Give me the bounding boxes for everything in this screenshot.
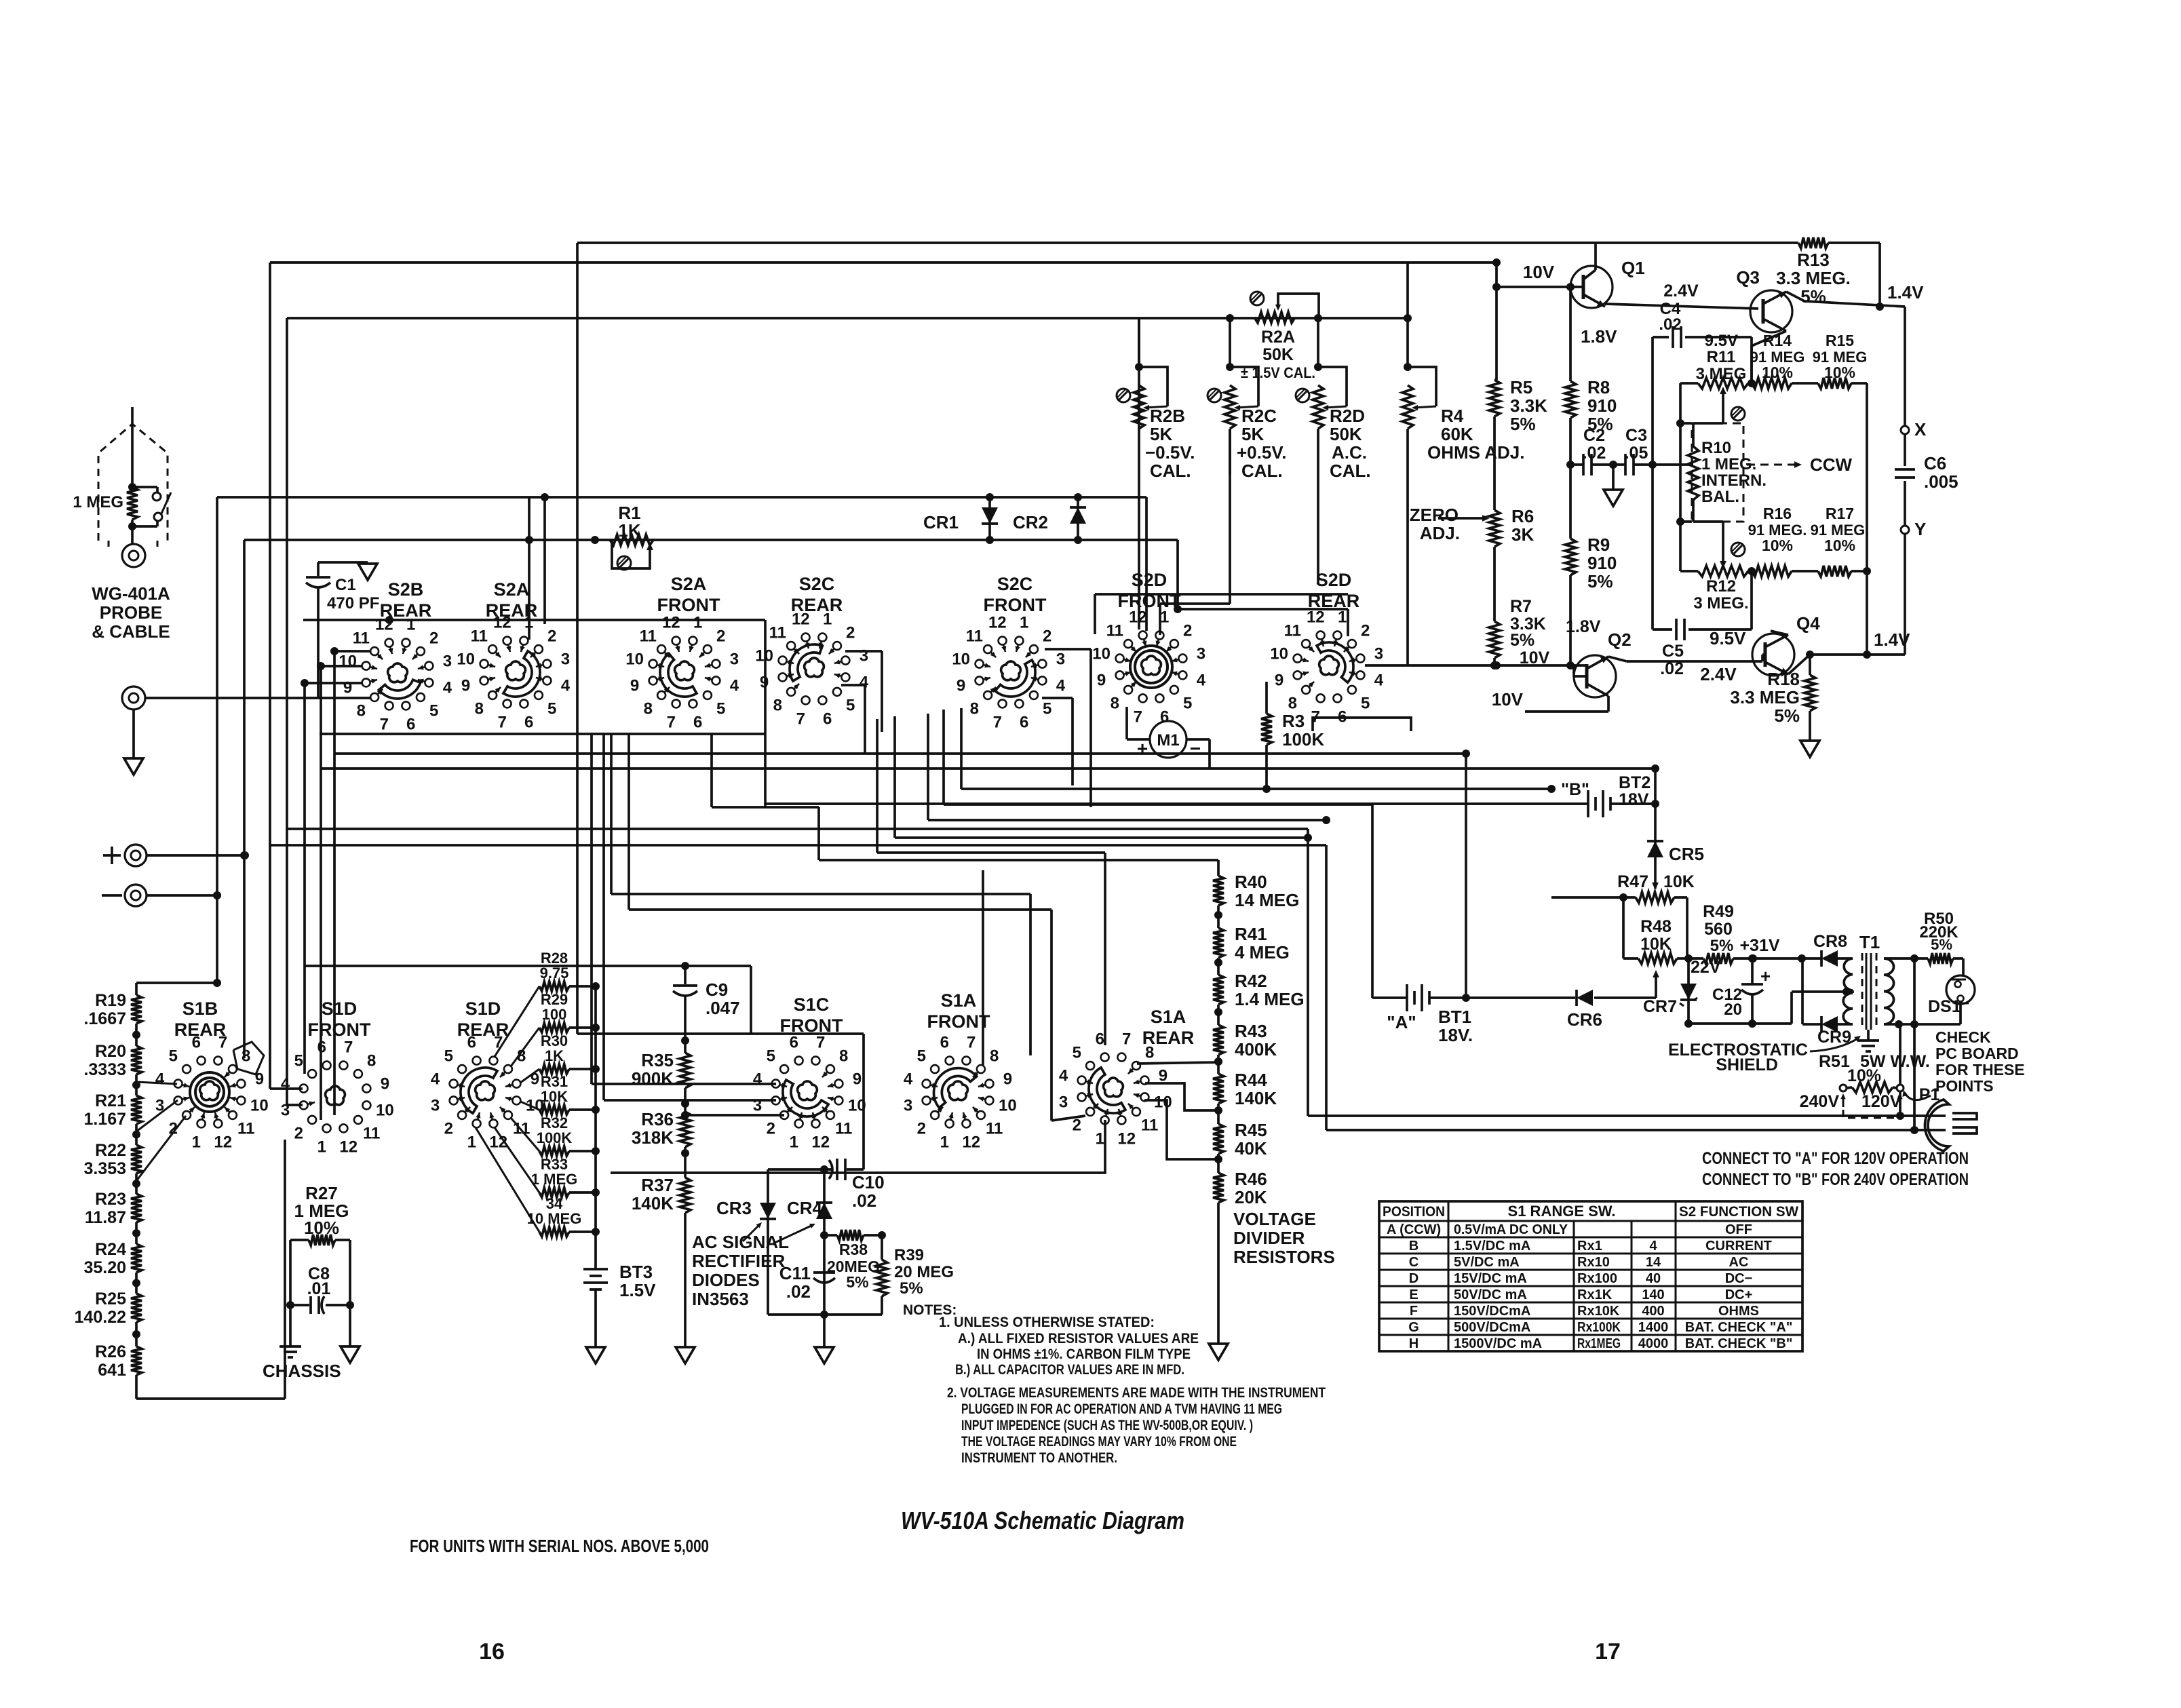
wire Q1 emitter (1605, 304, 1758, 309)
svg-text:S2A: S2A (494, 579, 530, 600)
svg-text:4: 4 (904, 1070, 913, 1088)
svg-text:5K: 5K (1150, 424, 1172, 444)
resistor R1 (610, 535, 653, 545)
svg-text:120V: 120V (1861, 1092, 1902, 1111)
switch S1A FRONT (904, 1034, 1017, 1152)
svg-text:11: 11 (1141, 1117, 1158, 1135)
note 2d (961, 1434, 1237, 1450)
svg-text:R12: R12 (1706, 577, 1736, 596)
svg-text:B.) ALL CAPACITOR VALUES AR: B.) ALL CAPACITOR VALUES ARE IN MFD. (955, 1362, 1184, 1378)
svg-text:1K: 1K (545, 1047, 564, 1064)
svg-text:4: 4 (561, 677, 571, 695)
label C9 (706, 979, 740, 1018)
svg-text:8: 8 (990, 1047, 999, 1065)
svg-text:40: 40 (1646, 1271, 1661, 1286)
pot R4 (1402, 263, 1436, 429)
svg-text:10%: 10% (1824, 364, 1855, 381)
label B BT2 (1561, 780, 1589, 799)
resistor R37 (680, 1178, 691, 1213)
wire R1 bus lower (244, 536, 1178, 544)
svg-text:R37: R37 (641, 1175, 674, 1195)
label S1A REAR (1142, 1007, 1195, 1048)
svg-text:R17: R17 (1826, 505, 1854, 522)
wire vert G (333, 651, 336, 1115)
svg-text:3: 3 (561, 650, 570, 668)
svg-text:10: 10 (1092, 644, 1111, 663)
wire S1C contact3 feed (604, 1099, 776, 1102)
wire jack gnd (132, 710, 135, 758)
svg-text:H: H (1409, 1336, 1418, 1351)
label R1 (618, 503, 640, 541)
svg-text:9.5V: 9.5V (1705, 332, 1738, 350)
svg-text:CR2: CR2 (1013, 512, 1048, 532)
label 10V S2D (1520, 648, 1550, 667)
label 1.4V Q3 (1887, 282, 1924, 303)
svg-text:CHASSIS: CHASSIS (263, 1361, 341, 1381)
svg-text:12: 12 (962, 1133, 980, 1151)
svg-text:2: 2 (294, 1125, 303, 1143)
label CR5 (1669, 844, 1704, 864)
svg-text:5%: 5% (846, 1273, 868, 1291)
svg-text:REAR: REAR (174, 1020, 227, 1040)
svg-text:5: 5 (444, 1047, 453, 1065)
svg-text:4: 4 (1056, 677, 1066, 695)
label S2B REAR (380, 579, 432, 621)
transistor Q2 (1574, 655, 1616, 697)
svg-text:PLUGGED IN FOR AC OPERATION AN: PLUGGED IN FOR AC OPERATION AND A TVM HA… (961, 1401, 1282, 1417)
label CR9 (1817, 1028, 1851, 1047)
svg-text:100: 100 (542, 1006, 567, 1023)
svg-text:8: 8 (644, 700, 653, 718)
svg-text:Rx100: Rx100 (1577, 1271, 1617, 1286)
label 120V (1861, 1092, 1902, 1111)
label DS1 (1928, 997, 1961, 1016)
resistor R18 (1804, 655, 1815, 741)
label C8 (307, 1264, 331, 1298)
wire shield arrow (1810, 1036, 1861, 1051)
svg-text:5%: 5% (1710, 937, 1734, 955)
svg-text:5: 5 (917, 1047, 926, 1065)
svg-text:R45: R45 (1235, 1120, 1267, 1140)
wire S1B contact3 feed (136, 1100, 178, 1131)
svg-text:.047: .047 (706, 998, 740, 1018)
wire plug upper (1308, 1114, 1946, 1117)
svg-text:CR4: CR4 (787, 1198, 823, 1218)
note 1b (955, 1362, 1184, 1378)
svg-text:318K: 318K (632, 1127, 674, 1148)
svg-text:R38: R38 (839, 1241, 868, 1258)
svg-text:1: 1 (317, 1138, 326, 1156)
label 1.4V Q4 (1874, 629, 1910, 650)
svg-text:4: 4 (730, 677, 739, 695)
label S2A FRONT (657, 574, 720, 615)
svg-text:7: 7 (380, 715, 389, 733)
svg-text:R22: R22 (95, 1141, 126, 1160)
label S1D REAR (457, 998, 509, 1040)
svg-text:7: 7 (796, 710, 805, 728)
R10 dashed box (1692, 423, 1743, 522)
svg-text:11: 11 (769, 623, 786, 642)
wire CR bus upper (217, 493, 1146, 501)
svg-text:10%: 10% (1762, 364, 1793, 381)
wire S2B contact10 feed (317, 662, 362, 670)
svg-text:22V: 22V (1691, 958, 1721, 977)
svg-text:8: 8 (242, 1047, 250, 1065)
svg-text:40K: 40K (1235, 1138, 1267, 1159)
svg-text:1.5V/DC mA: 1.5V/DC mA (1454, 1239, 1530, 1254)
svg-text:6: 6 (693, 713, 702, 731)
svg-text:11: 11 (237, 1120, 254, 1138)
label R36 (632, 1109, 674, 1148)
transformer T1 secondary (1884, 954, 1918, 1024)
svg-text:4: 4 (155, 1070, 165, 1088)
label R2D (1330, 406, 1371, 481)
svg-text:Rx1MEG: Rx1MEG (1577, 1336, 1621, 1351)
svg-text:100K: 100K (1282, 729, 1324, 750)
svg-text:R51: R51 (1819, 1052, 1850, 1071)
svg-text:9: 9 (461, 677, 470, 695)
label ZERO ADJ (1410, 505, 1460, 543)
svg-text:11: 11 (353, 629, 370, 647)
svg-text:S1B: S1B (182, 998, 218, 1019)
label R3 (1282, 711, 1324, 750)
label R14 (1750, 332, 1805, 381)
capacitor C2 (1583, 454, 1591, 475)
svg-text:6: 6 (940, 1034, 949, 1052)
label BT1 (1438, 1007, 1473, 1045)
label CR1 (923, 512, 959, 532)
svg-text:641: 641 (98, 1361, 126, 1380)
svg-text:CR5: CR5 (1669, 844, 1704, 864)
page 17 (1595, 1639, 1621, 1665)
wire vert I (590, 734, 593, 1084)
svg-text:FRONT: FRONT (984, 595, 1047, 615)
svg-text:5: 5 (547, 700, 556, 718)
svg-text:10: 10 (339, 652, 357, 670)
svg-text:OHMS: OHMS (1718, 1304, 1759, 1319)
svg-text:3.353: 3.353 (83, 1159, 126, 1178)
note 1a2 (977, 1346, 1191, 1362)
svg-text:7: 7 (993, 713, 1002, 731)
svg-text:11: 11 (1106, 621, 1123, 640)
svg-text:5V/DC mA: 5V/DC mA (1454, 1255, 1520, 1270)
label 10V Q1 (1523, 262, 1555, 282)
svg-text:16: 16 (479, 1639, 505, 1665)
screw R10 top (1731, 407, 1745, 421)
svg-text:R7: R7 (1510, 597, 1532, 616)
resistor R2A (1254, 312, 1295, 323)
diode CR5 (1647, 804, 1663, 890)
wire S2B contact11 feed (330, 647, 370, 655)
wire R35-R36 (681, 1088, 689, 1112)
label 9.5V Q3 (1705, 332, 1738, 350)
svg-text:R4: R4 (1441, 406, 1464, 426)
svg-text:1 MEG: 1 MEG (73, 493, 123, 511)
svg-text:.01: .01 (307, 1279, 331, 1298)
svg-text:10K: 10K (1663, 872, 1695, 891)
svg-text:3: 3 (443, 652, 452, 670)
wire maze h4d (895, 716, 1312, 842)
svg-text:17: 17 (1595, 1639, 1621, 1665)
svg-text:12: 12 (662, 614, 680, 632)
resistor R36 (680, 1112, 691, 1147)
label CCW (1747, 454, 1853, 475)
wire S1C contact2 feed (681, 1111, 784, 1119)
zener CR7 (1680, 958, 1697, 1024)
svg-text:R8: R8 (1587, 377, 1610, 397)
label Q1 (1621, 258, 1645, 278)
label 240V (1800, 1092, 1840, 1111)
chassis ground C8 (279, 1346, 301, 1357)
dashed tap box (1843, 1110, 1898, 1118)
wire vert J (602, 734, 605, 1100)
wire S2 box bottom (320, 733, 765, 735)
resistor R6 (1489, 510, 1500, 547)
svg-text:BT3: BT3 (619, 1262, 653, 1282)
svg-text:CR3: CR3 (716, 1198, 752, 1218)
svg-text:5: 5 (294, 1051, 303, 1070)
svg-text:6: 6 (790, 1034, 798, 1052)
svg-text:FRONT: FRONT (1118, 591, 1181, 611)
svg-text:50K: 50K (1262, 345, 1294, 364)
wire Q3 emitter (1786, 292, 1905, 311)
svg-text:8: 8 (475, 700, 484, 718)
svg-text:.02: .02 (852, 1190, 876, 1211)
svg-text:5%: 5% (1510, 631, 1535, 650)
svg-text:R23: R23 (95, 1190, 126, 1209)
svg-text:D: D (1409, 1271, 1418, 1286)
svg-text:+: + (1760, 966, 1771, 986)
chain junction dots (132, 1031, 140, 1339)
switch S1C FRONT (753, 1034, 866, 1152)
label CR2 (1013, 512, 1048, 532)
wire vert S2A rear 12 (525, 497, 533, 640)
svg-text:14: 14 (1646, 1255, 1661, 1270)
svg-text:3: 3 (281, 1102, 290, 1120)
switch S2B REAR (339, 616, 452, 734)
label CONNECT A (1702, 1149, 1969, 1168)
wire zero adj arrow (1438, 515, 1490, 522)
resistor R8 (1565, 381, 1576, 418)
svg-text:R21: R21 (95, 1091, 126, 1110)
screw R10 bot (1731, 543, 1745, 556)
diode CR2 (1070, 497, 1086, 540)
svg-text:18V.: 18V. (1619, 790, 1652, 809)
wire R37 bottom (684, 1213, 687, 1347)
node X (1901, 419, 1927, 440)
screw R2C (1208, 389, 1221, 402)
ground arrow C8 (341, 1346, 360, 1363)
svg-text:10%: 10% (1824, 537, 1855, 554)
svg-text:4 MEG: 4 MEG (1235, 942, 1290, 963)
svg-text:CAL.: CAL. (1150, 461, 1191, 481)
svg-text:1.8V: 1.8V (1566, 617, 1601, 636)
label C2 (1583, 426, 1606, 463)
svg-text:"A": "A" (1387, 1012, 1416, 1032)
svg-text:5: 5 (716, 700, 725, 718)
svg-text:5: 5 (169, 1047, 178, 1065)
svg-text:11: 11 (471, 627, 488, 645)
svg-text:7: 7 (1311, 707, 1320, 726)
svg-text:4: 4 (1649, 1239, 1657, 1254)
wire maze h3 (321, 769, 1655, 804)
wire maze h4e (877, 719, 1105, 1045)
svg-text:10: 10 (625, 650, 644, 668)
svg-text:10: 10 (999, 1097, 1017, 1115)
svg-text:S1A: S1A (941, 990, 977, 1011)
resistor R38 (824, 1230, 886, 1241)
svg-text:.3333: .3333 (83, 1060, 126, 1079)
svg-text:4: 4 (1059, 1066, 1068, 1085)
svg-text:A.C.: A.C. (1332, 442, 1367, 463)
svg-text:1.4 MEG: 1.4 MEG (1235, 989, 1305, 1009)
label S2D REAR (1308, 570, 1360, 611)
svg-text:C: C (1409, 1255, 1418, 1270)
label C3 (1625, 426, 1648, 463)
capacitor C11 (813, 1273, 835, 1283)
svg-text:R25: R25 (95, 1289, 126, 1308)
ground arrow C1 (358, 564, 377, 580)
svg-text:6: 6 (823, 710, 832, 728)
diode CR4 (816, 1203, 832, 1219)
svg-text:ADJ.: ADJ. (1420, 523, 1460, 543)
svg-text:C10: C10 (852, 1172, 885, 1192)
svg-text:11: 11 (363, 1125, 380, 1143)
wire S2C drops (841, 649, 1091, 807)
label T1 (1859, 932, 1880, 952)
switch S1B REAR (155, 1034, 269, 1152)
transistor Q1 (1570, 266, 1613, 308)
svg-text:4: 4 (443, 679, 452, 697)
label R12 (1693, 577, 1748, 613)
svg-text:8: 8 (1288, 695, 1297, 713)
wire Q1 base (1492, 283, 1583, 291)
svg-text:DS1: DS1 (1928, 997, 1961, 1016)
svg-text:2: 2 (846, 623, 855, 642)
wire R16-R17 (1792, 570, 1818, 572)
resistor chain R19-R26 (131, 983, 285, 1399)
svg-text:C9: C9 (706, 979, 728, 1000)
transformer T1 core (1862, 953, 1876, 1030)
svg-text:3K: 3K (1511, 524, 1534, 545)
wire Q4 base (1762, 655, 1765, 661)
input jack (122, 686, 145, 710)
svg-text:REAR: REAR (486, 600, 538, 621)
probe shield dashed (98, 424, 168, 551)
svg-text:S2B: S2B (388, 579, 424, 600)
wire R47 box (1623, 897, 1687, 958)
svg-text:6: 6 (1096, 1030, 1104, 1049)
svg-text:7: 7 (344, 1039, 353, 1057)
wire R10 top arrow (1693, 387, 1726, 423)
label R5 (1510, 377, 1547, 434)
svg-text:C2: C2 (1583, 426, 1605, 445)
wire top bus 1 (577, 241, 1880, 244)
svg-text:9: 9 (1003, 1070, 1012, 1088)
svg-text:900K: 900K (632, 1068, 674, 1089)
svg-text:BT2: BT2 (1619, 773, 1651, 792)
svg-text:Q1: Q1 (1621, 258, 1645, 278)
probe switch (128, 483, 171, 530)
capacitor C6 (1895, 469, 1915, 478)
label C12 (1712, 986, 1742, 1019)
wire CR4 branch (820, 1169, 828, 1319)
switch S2D REAR (1270, 608, 1383, 726)
wire S2B contact9 feed (301, 679, 362, 687)
svg-text:4: 4 (431, 1070, 440, 1088)
svg-text:REAR: REAR (457, 1020, 509, 1040)
wire S1A rear c10 (1144, 1100, 1218, 1159)
svg-text:.005: .005 (1924, 471, 1958, 492)
ground arrow R18 (1800, 741, 1819, 757)
svg-text:7: 7 (1134, 707, 1142, 726)
svg-text:INSTRUMENT TO ANOTHER.: INSTRUMENT TO ANOTHER. (961, 1450, 1117, 1466)
svg-text:5%: 5% (1800, 286, 1826, 307)
wire plug lower (1326, 1129, 1946, 1131)
svg-text:R2C: R2C (1241, 406, 1277, 426)
wire R2D bottom (1317, 429, 1319, 583)
svg-text:+31V: +31V (1739, 936, 1779, 955)
label CONNECT B (1702, 1170, 1969, 1189)
label 22V (1691, 958, 1721, 977)
svg-text:CAL.: CAL. (1330, 461, 1371, 481)
wire S1B contact4 feed (136, 1082, 177, 1084)
note 1 (939, 1315, 1155, 1330)
diode CR8 (1733, 950, 1853, 967)
label R51 (1819, 1052, 1930, 1085)
label R13 (1776, 250, 1851, 307)
svg-text:5%: 5% (1587, 571, 1613, 591)
wire S1B chain top (136, 979, 221, 987)
svg-text:1: 1 (693, 614, 702, 632)
label R16 (1748, 505, 1807, 554)
wire R14-R15 (1792, 382, 1818, 385)
svg-text:8: 8 (839, 1047, 848, 1065)
label BT2 (1619, 773, 1652, 809)
svg-text:9.5V: 9.5V (1710, 628, 1746, 648)
wire C8 grounds (290, 1305, 350, 1346)
wire CR7 C12 rail (1684, 992, 1792, 1028)
transformer T1 primary (1843, 958, 1853, 1024)
svg-text:5: 5 (767, 1047, 775, 1065)
meter M1 (1137, 721, 1201, 759)
svg-text:C3: C3 (1625, 426, 1647, 445)
svg-text:R48: R48 (1640, 917, 1672, 936)
svg-text:9: 9 (343, 679, 352, 697)
svg-text:12: 12 (811, 1133, 830, 1151)
svg-text:R36: R36 (641, 1109, 674, 1129)
wire maze h5 (287, 829, 1308, 1116)
wire vert E (303, 683, 306, 1074)
svg-text:3: 3 (1056, 650, 1065, 668)
svg-text:560: 560 (1704, 920, 1733, 939)
wire R11 left vert (1676, 383, 1698, 571)
svg-text:R15: R15 (1826, 332, 1854, 349)
label ELECTROSTATIC (1668, 1041, 1808, 1074)
wire R5-R6 (1493, 416, 1496, 510)
svg-text:500V/DCmA: 500V/DCmA (1454, 1320, 1530, 1335)
svg-text:9: 9 (630, 677, 639, 695)
ground arrow R37 (676, 1347, 695, 1363)
svg-text:"B": "B" (1561, 780, 1589, 799)
label S2C FRONT (984, 574, 1047, 615)
svg-text:Rx1K: Rx1K (1577, 1287, 1613, 1302)
wire probe tip (131, 407, 134, 487)
wire R10 bot arrow (1693, 522, 1726, 568)
svg-text:Q4: Q4 (1796, 613, 1820, 634)
svg-text:6: 6 (1020, 713, 1028, 731)
svg-text:VOLTAGE: VOLTAGE (1233, 1209, 1316, 1229)
